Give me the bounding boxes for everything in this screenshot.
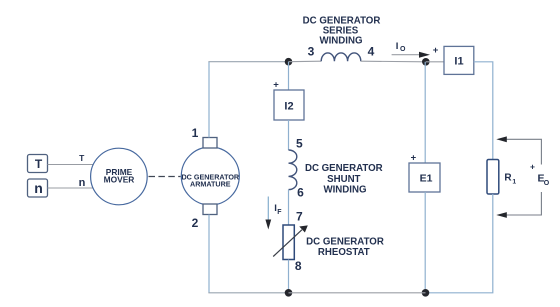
svg-text:3: 3 <box>308 45 315 59</box>
dashed shaft link <box>149 176 181 178</box>
rheostat arrow <box>273 225 308 256</box>
ammeter I2 box <box>274 90 304 120</box>
resistor R1 body <box>487 160 499 195</box>
wire node to I2 <box>288 62 290 90</box>
node junction dot series/E1 <box>422 58 430 66</box>
svg-text:6: 6 <box>297 186 304 200</box>
svg-text:5: 5 <box>296 137 303 151</box>
arrow If down <box>265 197 271 230</box>
svg-text:R: R <box>504 172 512 183</box>
svg-text:ARMATURE: ARMATURE <box>190 179 231 188</box>
wire series coil to node <box>361 60 426 63</box>
wire T to prime mover <box>48 164 94 166</box>
DC generator armature circle <box>181 147 240 205</box>
wire bottom rail left segment <box>208 292 288 294</box>
wire R1 down to bottom rail <box>426 194 493 293</box>
svg-text:E1: E1 <box>420 173 433 185</box>
wire I1 to right rail corner <box>474 62 493 160</box>
current label If <box>274 203 282 216</box>
svg-text:8: 8 <box>295 259 302 273</box>
wire armature terminal 2 down <box>208 215 210 293</box>
svg-text:7: 7 <box>296 210 303 224</box>
label Eo <box>538 173 550 188</box>
svg-text:O: O <box>400 46 406 53</box>
svg-text:O: O <box>544 180 550 187</box>
svg-text:n: n <box>34 180 43 196</box>
prime mover circle <box>91 148 148 205</box>
node junction dot shunt bottom <box>285 289 293 297</box>
shunt winding title <box>305 163 383 195</box>
label R1 <box>504 172 516 185</box>
svg-text:1: 1 <box>192 126 199 140</box>
arrow Io <box>392 52 430 58</box>
current label Io <box>396 41 406 53</box>
svg-text:n: n <box>79 177 86 189</box>
svg-text:DC GENERATOR: DC GENERATOR <box>305 163 383 174</box>
terminal box T <box>28 155 48 173</box>
svg-text:+: + <box>411 152 417 163</box>
node junction dot E1 bottom <box>422 289 430 297</box>
svg-text:T: T <box>79 153 85 163</box>
rheostat body <box>283 225 294 260</box>
node junction dot top shunt tap <box>285 58 293 66</box>
Eo bottom arrow <box>496 192 541 218</box>
svg-text:2: 2 <box>192 216 199 230</box>
inductor L shunt winding <box>289 150 297 190</box>
wire node to I1 <box>426 61 444 63</box>
armature terminal 1 <box>203 138 217 149</box>
wire node down to E1 <box>424 62 426 163</box>
armature terminal 2 <box>203 204 217 215</box>
svg-text:1: 1 <box>512 178 516 185</box>
bottom rail wire <box>289 292 426 294</box>
voltmeter E1 box <box>409 163 440 192</box>
svg-text:T: T <box>35 157 43 171</box>
svg-text:SHUNT: SHUNT <box>327 174 360 185</box>
wire E1 down to bottom rail <box>424 192 426 293</box>
svg-text:RHEOSTAT: RHEOSTAT <box>318 247 370 258</box>
ammeter I1 box <box>444 46 474 74</box>
rheostat title <box>306 237 384 258</box>
wire armature terminal 1 up <box>208 62 210 138</box>
svg-text:I2: I2 <box>284 100 293 112</box>
wire n to prime mover <box>48 187 93 189</box>
inductor L series winding <box>321 53 361 61</box>
series winding title <box>303 15 381 46</box>
svg-text:+: + <box>433 45 439 56</box>
svg-text:I: I <box>396 41 399 52</box>
wire I2 to shunt coil <box>288 120 290 150</box>
svg-text:+: + <box>273 80 279 91</box>
wire dot to series coil <box>289 60 322 63</box>
wire top rail left segment <box>208 61 288 63</box>
wire shunt coil to rheostat <box>288 190 290 225</box>
svg-text:I1: I1 <box>454 56 463 68</box>
svg-text:WINDING: WINDING <box>319 36 362 47</box>
Eo top arrow <box>496 136 541 164</box>
wire rheostat to bottom rail <box>288 260 290 293</box>
svg-text:+: + <box>530 162 535 172</box>
terminal box n <box>28 179 48 197</box>
svg-text:MOVER: MOVER <box>104 174 135 184</box>
svg-text:WINDING: WINDING <box>323 184 366 195</box>
svg-text:4: 4 <box>368 45 375 59</box>
svg-text:F: F <box>277 209 282 216</box>
